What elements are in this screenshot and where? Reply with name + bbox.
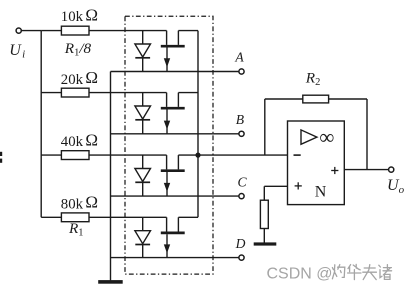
resistor R2 — [303, 95, 329, 103]
wire feedback right vertical — [366, 99, 368, 170]
wire left vertical bus — [40, 31, 42, 218]
op-amp output plus marker — [331, 167, 338, 174]
svg-text:80kΩ: 80kΩ — [61, 193, 98, 213]
wire resistor to switch row 3 — [89, 154, 167, 156]
resistor 80k ohm row 4 — [61, 213, 89, 222]
terminal B — [239, 131, 244, 136]
op-amp minus input marker — [294, 154, 301, 156]
wire bus to resistor row 3 — [41, 154, 61, 156]
terminal D — [239, 255, 244, 260]
op-amp N body — [288, 121, 345, 205]
resistor balance at plus input — [260, 200, 268, 228]
wire resistor to switch row 4 — [89, 216, 167, 218]
wire switch output to terminal A — [111, 71, 239, 73]
wire bus to resistor row 2 — [41, 92, 61, 94]
wire resistor to ground — [263, 229, 265, 243]
svg-text:A: A — [234, 50, 244, 65]
svg-text:C: C — [237, 174, 247, 189]
MOS switch Q1 — [161, 31, 198, 72]
node summing junction dot — [195, 153, 200, 158]
svg-text:20kΩ: 20kΩ — [61, 68, 98, 88]
wire switch output to terminal C — [111, 195, 239, 197]
wire resistor to switch row 1 — [89, 30, 167, 32]
diode VD2 — [135, 93, 151, 134]
wire switch output to terminal D — [111, 257, 239, 259]
wire bus to resistor row 1 — [41, 30, 61, 32]
terminal Uo output — [389, 167, 394, 172]
left edge crop mark — [0, 152, 2, 156]
MOS switch Q2 — [161, 93, 198, 134]
terminal A — [239, 69, 244, 74]
switch block dash-dot border — [125, 16, 213, 274]
wire input terminal to left bus — [21, 30, 41, 32]
svg-text:10kΩ: 10kΩ — [61, 6, 98, 26]
wire op-amp plus input — [264, 186, 287, 200]
ground symbol main — [98, 280, 123, 284]
terminal Ui input — [16, 28, 21, 33]
diode VD4 — [135, 217, 151, 257]
svg-text:N: N — [315, 184, 327, 201]
wire op-amp output — [344, 169, 388, 171]
MOS switch Q4 — [161, 217, 198, 257]
svg-text:D: D — [235, 236, 246, 251]
wire resistor to switch row 2 — [89, 92, 167, 94]
wire R2 to feedback right vertical — [329, 98, 367, 100]
diode VD1 — [135, 31, 151, 72]
ground symbol at plus input — [254, 242, 277, 245]
diode VD3 — [135, 155, 151, 196]
svg-text:CSDN @: CSDN @ — [267, 266, 333, 283]
wire bus to op-amp inverting input — [198, 154, 288, 156]
svg-text:∞: ∞ — [319, 125, 334, 149]
wire feedback to R2 — [265, 98, 303, 100]
svg-text:B: B — [236, 112, 244, 127]
MOS switch Q3 — [161, 155, 198, 196]
wire switch output to terminal B — [111, 133, 239, 135]
op-amp plus input marker — [295, 182, 302, 189]
op-amp gain triangle — [301, 130, 317, 144]
resistor 40k ohm row 3 — [61, 151, 89, 160]
resistor 10k ohm row 1 — [61, 26, 89, 35]
wire bus to resistor row 4 — [41, 216, 61, 218]
wire common output bus — [197, 31, 199, 218]
svg-text:40kΩ: 40kΩ — [61, 130, 98, 150]
wire feedback left vertical — [264, 99, 266, 155]
wire ground bus vertical — [110, 72, 112, 281]
terminal C — [239, 194, 244, 199]
resistor 20k ohm row 2 — [61, 88, 89, 97]
